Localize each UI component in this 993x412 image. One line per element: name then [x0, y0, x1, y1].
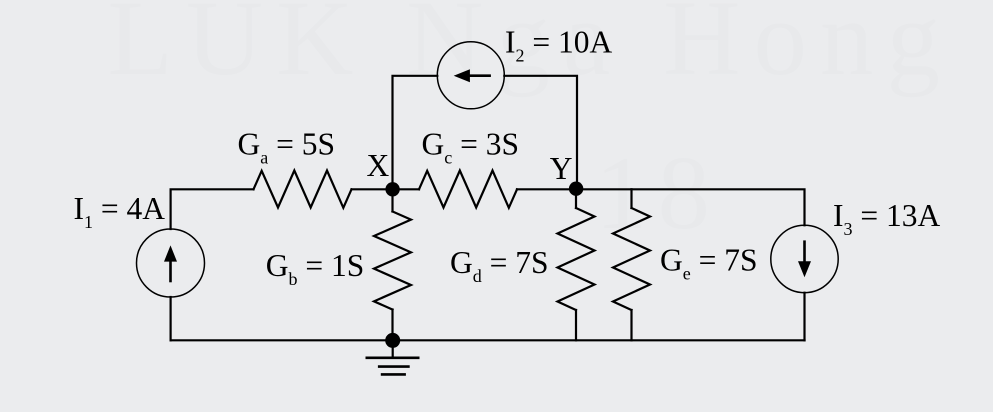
wire Ge bottom stub [630, 310, 632, 340]
wire Ge top stub [630, 189, 632, 208]
svg-text:Ge = 7S: Ge = 7S [660, 243, 758, 284]
wire Gc to node Y [517, 188, 576, 190]
current source I3 circle [771, 225, 838, 292]
wire I2 loop right branch [504, 76, 577, 190]
resistor Gd [558, 208, 595, 310]
svg-text:X: X [367, 148, 390, 183]
svg-text:I1 = 4A: I1 = 4A [74, 191, 166, 232]
current source I3 arrow (down) [798, 240, 811, 277]
svg-text:Gb = 1S: Gb = 1S [266, 248, 365, 289]
wire left riser from I1 to top rail and to Ga [171, 189, 254, 229]
ground symbol [366, 358, 420, 375]
wire ground stub [392, 340, 394, 357]
svg-text:Gc = 3S: Gc = 3S [422, 127, 520, 168]
current source I1 circle [137, 229, 205, 297]
svg-text:Ga = 5S: Ga = 5S [238, 127, 336, 168]
svg-text:I3 = 13A: I3 = 13A [833, 198, 941, 239]
wire I2 loop left branch [393, 76, 438, 190]
node X junction dot [385, 182, 399, 196]
wire Ga to node X [352, 188, 393, 190]
wire Y to Gd stub [575, 189, 577, 208]
wire I1 bottom stub [170, 297, 172, 340]
wire X to Gb stub [391, 189, 393, 211]
wire Gd bottom stub [575, 310, 577, 340]
wire bottom rail [171, 339, 805, 341]
resistor Gc [419, 171, 517, 208]
wire I3 bottom stub [803, 293, 805, 341]
svg-text:Gd = 7S: Gd = 7S [450, 245, 549, 286]
resistor Ga [254, 171, 352, 208]
resistor Ge [613, 208, 650, 310]
svg-text:Y: Y [550, 151, 573, 186]
current source I2 circle [437, 42, 504, 109]
current source I1 arrow (up) [164, 245, 177, 282]
wire node X to Gc [393, 188, 420, 190]
wire Gb bottom stub [391, 310, 393, 341]
node Y junction dot [569, 182, 583, 196]
current source I2 arrow (left) [454, 69, 491, 82]
wire node Y to right riser down to I3 [576, 189, 805, 225]
resistor Gb [374, 212, 411, 310]
ground node junction dot [385, 333, 400, 348]
